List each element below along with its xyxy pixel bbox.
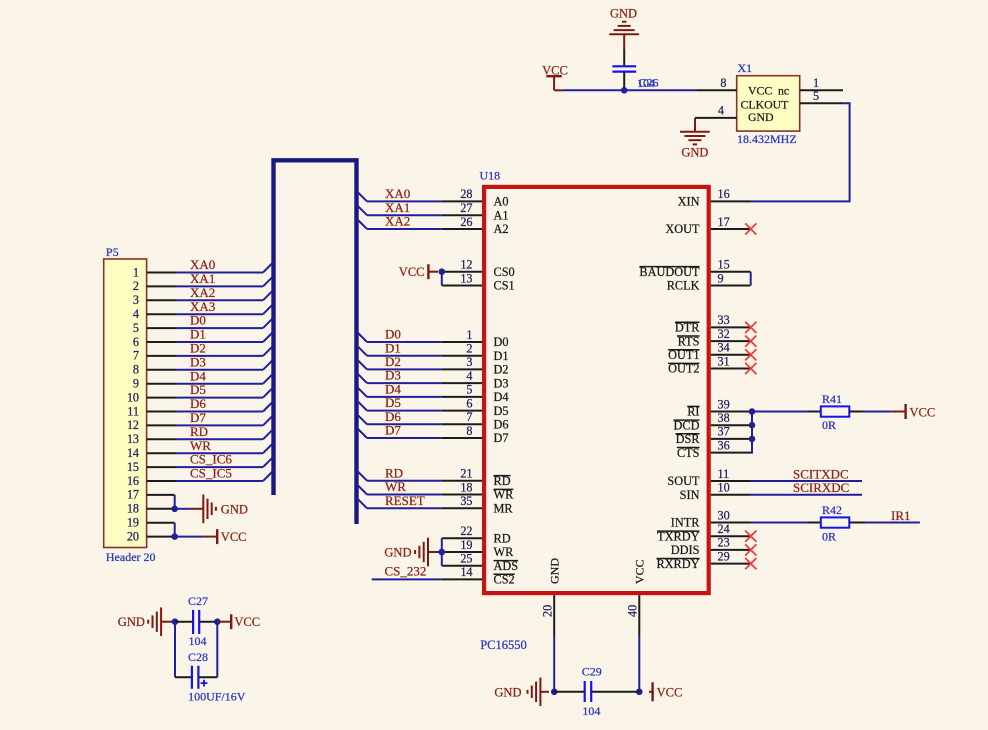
P5 pin 6 stub — [147, 341, 176, 343]
U18 pin 28 (A0) stub — [442, 200, 482, 202]
svg-text:16: 16 — [127, 474, 139, 488]
svg-text:13: 13 — [460, 271, 472, 285]
power VCC at R41 — [904, 404, 906, 419]
svg-text:9: 9 — [718, 271, 724, 285]
wire net D0 to U18 — [367, 341, 442, 343]
wire C28 loop right — [216, 622, 218, 678]
svg-text:19: 19 — [460, 538, 472, 552]
U18 pin 12 (CS0) stub — [442, 271, 482, 273]
wire net D1 from P5 pin 6 — [176, 341, 263, 343]
U18 pin 36 (CTS) stub — [711, 452, 753, 454]
wire GND to pin19 junction — [436, 551, 442, 553]
svg-text:XA0: XA0 — [385, 186, 410, 201]
wire net WR from P5 pin 14 — [176, 452, 263, 454]
svg-text:WR: WR — [494, 545, 515, 559]
wire P5 pin17 to pin18 junction — [174, 495, 176, 509]
junction dot CS0 — [439, 268, 446, 275]
bus entry from P5 pin 9 — [263, 373, 274, 384]
svg-text:VCC: VCC — [221, 530, 247, 544]
svg-text:104: 104 — [637, 76, 655, 90]
junction dot P5 pin18 — [171, 506, 178, 513]
bus entry from P5 pin 16 — [263, 471, 274, 482]
svg-text:D6: D6 — [190, 396, 206, 411]
wire C28 to right loop — [198, 676, 217, 678]
wire net XA0 from P5 pin 1 — [176, 272, 263, 274]
bus entry from P5 pin 3 — [263, 290, 274, 301]
wire net D1 to U18 — [367, 355, 442, 357]
P5 pin 10 stub — [147, 397, 176, 399]
X1 pin 5 stub — [800, 102, 842, 104]
junction dot pin19 row — [439, 549, 446, 556]
svg-text:14: 14 — [460, 565, 472, 579]
U18 pin 2 (D1) stub — [442, 355, 482, 357]
U18 pin 33 (DTR) stub — [711, 326, 751, 328]
svg-text:20: 20 — [541, 605, 555, 617]
svg-text:28: 28 — [460, 187, 472, 201]
bus exit to U18 net XA0 — [357, 191, 368, 202]
svg-text:37: 37 — [718, 425, 730, 439]
bus entry from P5 pin 8 — [263, 359, 274, 370]
junction dot C27 left — [172, 618, 179, 625]
svg-text:D1: D1 — [494, 349, 509, 363]
U18 pin 18 (WR) stub — [442, 494, 482, 496]
bus exit to U18 net RD — [357, 470, 368, 481]
U18 pin 15 (BAUDOUT) stub — [711, 271, 751, 273]
svg-text:XA2: XA2 — [385, 214, 410, 229]
bus entry from P5 pin 11 — [263, 401, 274, 412]
bus exit to U18 net D2 — [357, 359, 368, 370]
wire net SCITXDC from pin11 — [751, 480, 863, 482]
P5 pin 11 stub — [147, 411, 176, 413]
U18 pin 38 (DCD) stub — [711, 424, 751, 426]
svg-text:D3: D3 — [385, 368, 401, 383]
wire net XA1 to U18 — [367, 214, 442, 216]
bus entry from P5 pin 15 — [263, 457, 274, 468]
svg-text:SIN: SIN — [680, 488, 700, 502]
U18 pin 20 (GND) stub — [553, 595, 555, 636]
bus entry from P5 pin 12 — [263, 415, 274, 426]
svg-text:4: 4 — [133, 307, 139, 321]
bus exit to U18 net D7 — [357, 428, 368, 439]
bus exit to U18 net D1 — [357, 345, 368, 356]
svg-text:5: 5 — [813, 89, 819, 103]
svg-text:VCC: VCC — [657, 686, 683, 700]
svg-text:CS1: CS1 — [494, 279, 515, 293]
wire vertical tie pins 39-36 — [751, 412, 753, 453]
svg-text:SOUT: SOUT — [667, 474, 700, 488]
ground at C27 — [148, 607, 161, 636]
svg-text:XIN: XIN — [678, 195, 700, 209]
bus exit to U18 net WR — [357, 484, 368, 495]
bus exit to U18 net D0 — [357, 332, 368, 343]
U18 pin 27 (A1) stub — [442, 214, 482, 216]
wire C29 to VCC node — [591, 691, 639, 693]
svg-text:D7: D7 — [190, 410, 206, 425]
svg-text:VCC: VCC — [234, 615, 260, 629]
svg-text:nc: nc — [778, 83, 789, 97]
wire loop BAUDOUT to RCLK — [750, 272, 752, 286]
junction dot pin39 — [749, 408, 756, 415]
svg-text:D3: D3 — [494, 376, 509, 390]
svg-text:3: 3 — [133, 293, 139, 307]
no-connect X at pin 29 — [745, 558, 756, 569]
wire net XA0 to U18 — [367, 200, 442, 202]
U18 pin 29 (RXRDY) stub — [711, 563, 751, 565]
U18 pin 23 (DDIS) stub — [711, 549, 751, 551]
svg-text:39: 39 — [718, 397, 730, 411]
P5 pin 17 stub — [147, 494, 175, 496]
power VCC at P5 pin20 — [216, 529, 218, 544]
svg-text:C29: C29 — [582, 665, 602, 679]
U18 pin 9 (RCLK) stub — [711, 285, 751, 287]
svg-text:20: 20 — [127, 529, 139, 543]
svg-text:29: 29 — [718, 549, 730, 563]
svg-text:DDIS: DDIS — [671, 543, 700, 557]
svg-text:GND: GND — [748, 110, 774, 124]
svg-text:11: 11 — [718, 467, 730, 481]
svg-text:IR1: IR1 — [891, 508, 911, 523]
svg-text:XA0: XA0 — [190, 257, 215, 272]
svg-text:7: 7 — [133, 349, 139, 363]
svg-text:1: 1 — [133, 265, 139, 279]
wire net D7 to U18 — [367, 437, 442, 439]
bus exit to U18 net D6 — [357, 414, 368, 425]
svg-text:GND: GND — [547, 558, 561, 584]
svg-text:8: 8 — [466, 424, 472, 438]
svg-text:D1: D1 — [190, 327, 206, 342]
bus entry from P5 pin 14 — [263, 443, 274, 454]
U18 pin 4 (D3) stub — [442, 382, 482, 384]
wire net XA1 from P5 pin 2 — [176, 285, 263, 287]
wire net RESET to U18 — [367, 507, 442, 509]
U18 pin 5 (D4) stub — [442, 396, 482, 398]
bus exit to U18 net D5 — [357, 400, 368, 411]
svg-text:D3: D3 — [190, 354, 206, 369]
svg-text:D0: D0 — [190, 313, 206, 328]
P5 pin 15 stub — [147, 466, 176, 468]
U18 pin 32 (RTS) stub — [711, 340, 751, 342]
U18 pin 21 (RD) stub — [442, 480, 482, 482]
bus entry from P5 pin 7 — [263, 345, 274, 356]
wire net D5 to U18 — [367, 410, 442, 412]
svg-text:D4: D4 — [190, 368, 206, 383]
svg-text:MR: MR — [494, 502, 514, 516]
svg-text:VCC: VCC — [632, 559, 646, 584]
wire net D6 to U18 — [367, 423, 442, 425]
no-connect X at pin 33 — [745, 322, 756, 333]
svg-text:D6: D6 — [494, 418, 509, 432]
wire VCC to CS0 junction — [428, 271, 438, 273]
P5 pin 3 stub — [147, 299, 176, 301]
svg-text:104: 104 — [582, 704, 600, 718]
U18 pin 1 (D0) stub — [442, 341, 482, 343]
U18 pin 34 (OUT1) stub — [711, 354, 751, 356]
svg-text:7: 7 — [466, 410, 472, 424]
P5 pin 14 stub — [147, 452, 176, 454]
svg-text:RD: RD — [385, 465, 403, 480]
svg-text:RD: RD — [494, 532, 511, 546]
wire X1 pin4 down to ground — [694, 118, 696, 132]
wire net D2 to U18 — [367, 368, 442, 370]
svg-text:5: 5 — [466, 383, 472, 397]
svg-text:GND: GND — [494, 686, 521, 700]
svg-text:18: 18 — [127, 502, 139, 516]
wire GND to C29 — [554, 691, 585, 693]
svg-text:14: 14 — [127, 446, 139, 460]
wire P5 pin18 to GND — [175, 508, 190, 510]
U18 pin 19 (WR) stub — [442, 551, 482, 553]
svg-text:GND: GND — [118, 615, 145, 629]
svg-text:36: 36 — [718, 438, 730, 452]
svg-text:17: 17 — [718, 215, 730, 229]
svg-text:26: 26 — [460, 215, 472, 229]
wire U18 pin20 down — [553, 636, 555, 692]
P5 pin 7 stub — [147, 355, 176, 357]
svg-text:23: 23 — [718, 536, 730, 550]
svg-text:XA1: XA1 — [190, 271, 215, 286]
svg-text:RESET: RESET — [385, 493, 425, 508]
svg-text:GND: GND — [610, 6, 637, 20]
svg-text:34: 34 — [718, 341, 730, 355]
svg-text:100UF/16V: 100UF/16V — [188, 689, 246, 703]
svg-text:18: 18 — [460, 480, 472, 494]
svg-text:0R: 0R — [822, 418, 836, 432]
svg-text:GND: GND — [221, 502, 248, 516]
svg-text:GND: GND — [681, 145, 708, 159]
U18 pin 13 (CS1) stub — [442, 285, 482, 287]
wire net XA3 from P5 pin 4 — [176, 313, 263, 315]
U18 pin 30 (INTR) stub — [711, 522, 751, 524]
P5 pin 2 stub — [147, 285, 176, 287]
U18 pin 40 (VCC) stub — [638, 595, 640, 636]
wire R41 to VCC — [849, 411, 863, 413]
junction dot P5 pin20 — [171, 533, 178, 540]
U18 pin 8 (D7) stub — [442, 437, 482, 439]
no-connect X at pin 34 — [745, 349, 756, 360]
svg-text:32: 32 — [718, 327, 730, 341]
svg-text:RD: RD — [190, 424, 208, 439]
wire net SCIRXDC from pin10 — [751, 494, 863, 496]
svg-text:C27: C27 — [188, 594, 208, 608]
X1 pin 4 stub — [695, 117, 737, 119]
connector P5 body — [104, 259, 147, 548]
wire C26 to net — [623, 72, 625, 91]
svg-text:Header 20: Header 20 — [106, 550, 156, 564]
svg-text:30: 30 — [718, 508, 730, 522]
bus entry from P5 pin 2 — [263, 276, 274, 287]
svg-text:VCC: VCC — [748, 83, 772, 97]
P5 pin 9 stub — [147, 383, 176, 385]
wire net XA2 to U18 — [367, 228, 442, 230]
svg-text:D2: D2 — [494, 363, 509, 377]
wire VCC to X1 pin8 — [554, 89, 563, 91]
svg-text:9: 9 — [133, 377, 139, 391]
wire net D3 to U18 — [367, 382, 442, 384]
junction dot below C26 — [621, 87, 628, 94]
svg-text:A2: A2 — [494, 222, 509, 236]
svg-text:WR: WR — [190, 438, 211, 453]
wire net D7 from P5 pin 12 — [176, 424, 263, 426]
bus exit to U18 net XA2 — [357, 219, 368, 230]
svg-text:16: 16 — [718, 187, 730, 201]
bus exit to U18 net XA1 — [357, 205, 368, 216]
wire ground to C27 node — [161, 621, 170, 623]
svg-text:25: 25 — [460, 552, 472, 566]
wire net D2 from P5 pin 7 — [176, 355, 263, 357]
U18 pin 35 (MR) stub — [442, 507, 482, 509]
svg-text:XA3: XA3 — [190, 299, 215, 314]
P5 pin 19 stub — [147, 522, 175, 524]
ground above C26 (inverted) — [609, 22, 639, 35]
capacitor C28 (electrolytic) — [192, 666, 199, 689]
U18 pin 17 (XOUT) stub — [711, 228, 751, 230]
U18 pin 11 (SOUT) stub — [711, 480, 751, 482]
svg-text:19: 19 — [127, 516, 139, 530]
no-connect X at pin 23 — [745, 544, 756, 555]
wire net D0 from P5 pin 5 — [176, 327, 263, 329]
svg-text:4: 4 — [718, 103, 724, 117]
no-connect X at pin 31 — [745, 363, 756, 374]
wire ground to C26 — [623, 34, 625, 49]
svg-text:24: 24 — [718, 522, 730, 536]
P5 pin 16 stub — [147, 480, 176, 482]
svg-text:35: 35 — [460, 494, 472, 508]
svg-text:6: 6 — [133, 335, 139, 349]
svg-text:VCC: VCC — [399, 265, 425, 279]
bus exit to U18 net RESET — [357, 498, 368, 509]
svg-text:INTR: INTR — [671, 516, 700, 530]
capacitor C29 — [585, 681, 592, 702]
svg-text:X1: X1 — [738, 61, 753, 75]
svg-text:12: 12 — [127, 418, 139, 432]
capacitor C26 — [612, 66, 636, 71]
power VCC at C27 — [230, 614, 232, 629]
svg-text:18.432MHZ: 18.432MHZ — [737, 132, 797, 146]
U18 pin 25 (ADS) stub — [442, 565, 482, 567]
svg-text:21: 21 — [460, 467, 472, 481]
wire net XA2 from P5 pin 3 — [176, 299, 263, 301]
svg-text:38: 38 — [718, 411, 730, 425]
svg-text:D0: D0 — [494, 335, 509, 349]
wire net RD to U18 — [367, 480, 442, 482]
svg-text:2: 2 — [133, 279, 139, 293]
bus entry from P5 pin 5 — [263, 318, 274, 329]
U18 pin 3 (D2) stub — [442, 368, 482, 370]
wire X1 pin5 to XIN — [751, 103, 850, 201]
svg-text:D5: D5 — [494, 404, 509, 418]
X1 pin 8 stub — [697, 89, 737, 91]
svg-text:2: 2 — [466, 342, 472, 356]
P5 pin 8 stub — [147, 369, 176, 371]
no-connect X at pin 32 — [745, 336, 756, 347]
U18 pin 10 (SIN) stub — [711, 494, 751, 496]
junction dot pin38 — [749, 422, 756, 429]
U18 pin 22 (RD) stub — [442, 537, 482, 539]
P5 pin 4 stub — [147, 313, 176, 315]
svg-text:5: 5 — [133, 321, 139, 335]
svg-text:PC16550: PC16550 — [480, 638, 527, 652]
svg-text:A0: A0 — [494, 195, 509, 209]
power VCC at U18 CS0 — [427, 264, 429, 279]
P5 pin 18 stub — [147, 508, 175, 510]
svg-text:8: 8 — [720, 76, 726, 90]
svg-text:1: 1 — [813, 76, 819, 90]
wire net CS_IC5 from P5 pin 16 — [176, 480, 263, 482]
wire to C27 — [175, 621, 193, 623]
svg-text:27: 27 — [460, 201, 472, 215]
svg-text:P5: P5 — [106, 245, 119, 259]
wire to C28 — [175, 676, 192, 678]
bus entry from P5 pin 13 — [263, 429, 274, 440]
svg-text:6: 6 — [466, 396, 472, 410]
svg-text:22: 22 — [460, 524, 472, 538]
no-connect X at pin 17 — [745, 223, 756, 234]
svg-text:VCC: VCC — [910, 405, 936, 419]
wire junction vertical pins 22-25 — [441, 538, 443, 565]
svg-text:D5: D5 — [190, 382, 206, 397]
svg-text:XA2: XA2 — [190, 285, 215, 300]
U18 pin 6 (D5) stub — [442, 410, 482, 412]
U18 pin 31 (OUT2) stub — [711, 368, 751, 370]
wire R42 to IR1 — [849, 522, 865, 524]
P5 pin 13 stub — [147, 438, 176, 440]
power VCC at pin40 net — [649, 691, 653, 693]
svg-text:U18: U18 — [480, 168, 501, 182]
svg-text:33: 33 — [718, 313, 730, 327]
P5 pin 12 stub — [147, 424, 176, 426]
svg-text:13: 13 — [127, 432, 139, 446]
P5 pin 1 stub — [147, 272, 176, 274]
svg-text:40: 40 — [626, 605, 640, 617]
ground at pin20 net — [528, 678, 541, 707]
no-connect X at pin 24 — [745, 531, 756, 542]
wire U18 pin40 down — [638, 636, 640, 692]
wire pin39 to R41 — [753, 411, 808, 413]
wire CS0 junction down to CS1 — [441, 272, 443, 286]
wire net CS_IC6 from P5 pin 15 — [176, 466, 263, 468]
U18 pin 37 (DSR) stub — [711, 438, 751, 440]
svg-text:1: 1 — [466, 328, 472, 342]
oscillator X1 body — [737, 76, 800, 131]
svg-text:CS_IC5: CS_IC5 — [190, 466, 232, 481]
junction dot pin20 net — [551, 689, 558, 696]
svg-text:3: 3 — [466, 355, 472, 369]
svg-text:GND: GND — [384, 545, 411, 559]
wire C28 loop left — [174, 622, 176, 678]
ground at X1 pin4 — [680, 132, 710, 145]
junction dot pin37 — [749, 436, 756, 443]
U18 pin 39 (RI) stub — [711, 411, 751, 413]
junction dot pin40 net — [636, 689, 643, 696]
wire C27 to VCC node — [199, 621, 217, 623]
svg-text:CS_IC6: CS_IC6 — [190, 452, 232, 467]
P5 pin 20 stub — [147, 536, 175, 538]
svg-text:104: 104 — [189, 634, 207, 648]
svg-text:0R: 0R — [822, 530, 836, 544]
svg-text:D7: D7 — [494, 431, 509, 445]
U18 pin 16 (XIN) stub — [711, 200, 751, 202]
bus entry from P5 pin 4 — [263, 304, 274, 315]
svg-text:XA1: XA1 — [385, 200, 410, 215]
bus exit to U18 net D3 — [357, 373, 368, 384]
wire to VCC at C27 — [217, 621, 231, 623]
svg-text:12: 12 — [460, 258, 472, 272]
bus exit to U18 net D4 — [357, 386, 368, 397]
bus entry from P5 pin 10 — [263, 387, 274, 398]
wire P5 pin20 to VCC — [175, 536, 204, 538]
wire net D5 from P5 pin 10 — [176, 397, 263, 399]
wire net D4 from P5 pin 9 — [176, 383, 263, 385]
